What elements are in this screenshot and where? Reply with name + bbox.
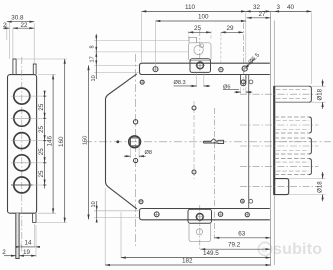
- svg-text:25: 25: [38, 125, 45, 133]
- follower hub: [129, 136, 141, 148]
- hole 6.5 vertical centerline: [242, 23, 244, 92]
- dimension 182: [105, 188, 270, 266]
- cylinder hole circle: [194, 45, 203, 54]
- label Ø6 with dimension: [223, 85, 252, 94]
- dimension 2 (leg) and 19 (bottom): [2, 225, 36, 257]
- svg-text:Ø18: Ø18: [317, 88, 324, 100]
- faceplate vertical centerline: [21, 57, 23, 252]
- bolt hole circle 2: [11, 110, 33, 126]
- svg-text:22: 22: [21, 22, 29, 29]
- svg-text:146: 146: [46, 135, 53, 146]
- svg-text:25: 25: [38, 103, 45, 111]
- latch bolt (bottom, solid): [240, 179, 319, 195]
- small pin dot left: [116, 140, 119, 143]
- bolt 2: [240, 117, 319, 133]
- svg-text:100: 100: [198, 14, 209, 21]
- dimension 32: [246, 4, 271, 11]
- svg-text:c: c: [262, 244, 267, 255]
- bottom band strip: [140, 209, 270, 220]
- crossed hole bottom right: [240, 199, 245, 204]
- dimension 149.5: [121, 212, 270, 258]
- hole Ø6: [241, 80, 245, 84]
- svg-text:149.5: 149.5: [203, 250, 219, 257]
- svg-text:79.2: 79.2: [228, 242, 241, 249]
- svg-text:27: 27: [259, 11, 267, 18]
- dimension Ø8.3: [174, 73, 211, 87]
- hole above bottom band left: [138, 199, 143, 204]
- svg-text:25: 25: [38, 170, 45, 178]
- dimension 2 (top lip): [3, 22, 18, 59]
- dimension 110: [142, 4, 246, 63]
- dimension 22: [13, 22, 34, 29]
- dimension 63: [215, 230, 271, 238]
- dimension 25 (plate width): [189, 25, 212, 40]
- dimension 27: [247, 11, 271, 18]
- main horizontal centerline: [84, 141, 331, 143]
- bottom screw tab (dark): [188, 209, 212, 223]
- band hole mid: [218, 67, 224, 73]
- bottom tab vertical centerline: [199, 205, 201, 249]
- svg-text:subito: subito: [273, 241, 322, 258]
- svg-text:25: 25: [38, 148, 45, 156]
- band hole left: [152, 66, 159, 73]
- bolt 1: [240, 86, 319, 102]
- svg-text:29: 29: [227, 25, 235, 32]
- top tab right: [33, 64, 36, 75]
- dimension 100: [156, 14, 246, 66]
- follower vertical centerline: [135, 54, 137, 246]
- bolt hole circle 3: [11, 133, 33, 149]
- top screw tab (dark): [190, 59, 211, 73]
- faceplate plate outline: [8, 75, 37, 214]
- small tab above plate: [189, 37, 197, 43]
- svg-text:17: 17: [90, 56, 96, 62]
- svg-text:3: 3: [277, 4, 281, 11]
- hole Ø6.5: [241, 65, 248, 72]
- bottom tab right: [33, 213, 36, 222]
- dimension 150: [83, 65, 89, 219]
- svg-text:19: 19: [23, 249, 31, 256]
- cylinder plate vertical centerline: [199, 30, 201, 72]
- watermark subito: [258, 241, 322, 258]
- bolt 3: [240, 138, 319, 154]
- svg-text:40: 40: [287, 4, 295, 11]
- bottom band hole left: [154, 211, 160, 217]
- hole above follower: [133, 120, 137, 124]
- body outline with chamfered corners: [106, 74, 137, 209]
- dimension 29: [221, 25, 243, 64]
- hole below follower: [134, 158, 138, 162]
- leader and label Ø6.5: [246, 52, 262, 68]
- top tab left: [13, 59, 16, 75]
- bolt hole circle 1: [11, 88, 33, 104]
- top band strip: [140, 63, 270, 74]
- label Ø8 with dimension: [124, 147, 152, 158]
- svg-text:Ø8: Ø8: [145, 150, 152, 156]
- plain hole bottom right: [249, 199, 253, 203]
- faceplate side view inner edge: [269, 12, 271, 266]
- U tab with hole Ø6: [241, 75, 246, 86]
- svg-text:Ø18: Ø18: [317, 181, 324, 193]
- svg-text:110: 110: [185, 4, 196, 11]
- follower square hole: [130, 138, 139, 146]
- bolt hole circle 5: [11, 177, 33, 193]
- svg-text:25: 25: [194, 25, 202, 32]
- dimension 40 (bolt throw): [274, 4, 311, 84]
- keyhole vertical centerline: [214, 108, 216, 239]
- bolt hole circle 4: [11, 155, 33, 171]
- dimension 10 bottom: [91, 201, 98, 223]
- svg-text:10: 10: [91, 201, 97, 207]
- svg-text:2: 2: [2, 249, 6, 256]
- dimension 3 (faceplate thickness): [270, 4, 280, 11]
- cylinder plate (thin): [189, 43, 212, 61]
- dimension 79.2: [201, 242, 271, 250]
- svg-text:Ø6.5: Ø6.5: [248, 52, 262, 66]
- bottom leg: [16, 213, 19, 258]
- bolt 4: [240, 159, 319, 175]
- small plain circle right of Ø6: [249, 80, 253, 84]
- svg-text:10: 10: [91, 75, 97, 81]
- dimension 146: [38, 75, 56, 214]
- dimension Ø18 bolt1: [311, 80, 325, 109]
- svg-text:Ø8.3: Ø8.3: [174, 80, 186, 86]
- dimension 14 (bottom): [16, 224, 40, 248]
- faceplate side view outer edge: [273, 20, 275, 265]
- hole upper mid body: [192, 106, 196, 110]
- svg-text:160: 160: [58, 136, 65, 147]
- svg-text:30.8: 30.8: [11, 14, 24, 21]
- body right edge: [248, 75, 250, 209]
- lower plate circle: [196, 229, 202, 235]
- svg-text:2: 2: [3, 22, 7, 29]
- screw hole Ø13 top: [195, 61, 205, 71]
- svg-text:182: 182: [182, 258, 193, 265]
- lower plate (thin): [189, 223, 211, 242]
- svg-text:150: 150: [83, 136, 89, 145]
- svg-text:8: 8: [90, 45, 96, 48]
- hole lower mid body: [192, 170, 196, 174]
- svg-text:63: 63: [238, 230, 246, 237]
- svg-text:14: 14: [25, 240, 33, 247]
- hole below band left: [140, 80, 145, 85]
- dimension Ø18 latch: [289, 172, 326, 201]
- extension lines bottom left of band: [94, 210, 140, 212]
- dimension chain 25 x4 (hole spacing): [33, 91, 47, 189]
- bottom band hole mid: [218, 211, 224, 217]
- keyhole slot: [203, 139, 223, 144]
- dimension 160: [17, 59, 67, 222]
- screw hole Ø13 bottom: [195, 212, 205, 222]
- cylinder notch circle: [200, 44, 204, 48]
- extension lines top left of band: [94, 40, 189, 42]
- bottom band hole right: [245, 212, 251, 218]
- dimension 10 top: [91, 75, 97, 81]
- dimension 30.8: [7, 14, 34, 64]
- dimension chain 8 / 17: [90, 34, 98, 79]
- screw holes vertical centerline: [193, 101, 195, 179]
